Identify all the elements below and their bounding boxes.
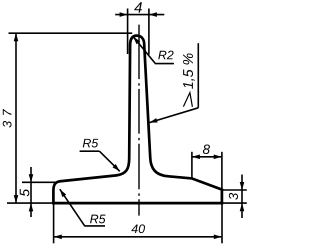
dim 4: extension line right	[148, 9, 150, 55]
radius label R2: text	[158, 51, 173, 60]
dim 5: top extension line	[22, 181, 58, 183]
dim 8: left arrow	[192, 155, 200, 160]
dim 3: bottom arrow	[240, 203, 245, 211]
dim 40: dimension line	[54, 236, 222, 238]
dim 5: dimension line	[30, 167, 32, 217]
radius label R5 (flange toe): arrowhead	[60, 189, 66, 197]
dim 37: dimension line	[15, 33, 17, 203]
radius label R5 (web fillet): leader line	[99, 151, 119, 171]
dim 4: dimension line	[115, 14, 164, 16]
dim 5: top arrow	[29, 174, 34, 182]
dim 37: bottom arrow	[14, 195, 19, 203]
dim 8: dimension line	[192, 156, 222, 158]
slope 1.5%: leader line	[149, 108, 198, 123]
dim 40: value label	[131, 224, 145, 233]
radius label R2: shelf	[155, 63, 174, 65]
radius label R5 (web fillet): text	[83, 139, 99, 148]
dim 8: right extension line (tip edge extended up)	[221, 152, 223, 190]
radius label R5 (flange toe): text	[90, 215, 106, 224]
radius label R5 (web fillet): arrowhead	[112, 164, 119, 171]
dim 4: left arrow	[120, 12, 128, 17]
dim 3: top arrow	[240, 182, 245, 190]
dim 3: top extension line	[222, 189, 247, 191]
dim 40: right arrow	[214, 235, 222, 240]
radius label R5 (flange toe): shelf	[84, 225, 105, 227]
radius label R2: arrowhead	[133, 37, 140, 45]
slope 1.5%: slope triangle symbol	[183, 93, 192, 107]
dim 40: left arrow	[54, 235, 62, 240]
radius label R5 (web fillet): shelf	[80, 150, 100, 152]
dim 8: left extension line	[191, 152, 193, 178]
slope 1.5%: arrowhead	[149, 118, 157, 123]
dim 40: left extension line	[53, 204, 55, 243]
dim 40: right extension line	[221, 204, 223, 243]
bottom extension line (left of profile)	[7, 202, 53, 204]
slope 1.5%: value label	[183, 53, 195, 88]
radius label R2: leader line	[133, 37, 155, 64]
profile outline of T-bar cross-section	[53, 36, 222, 204]
dim 37: value label	[3, 109, 12, 128]
dim 8: right arrow	[214, 155, 222, 160]
dim 4: extension line left	[127, 9, 129, 55]
radius label R5 (flange toe): leader line	[60, 189, 85, 226]
slope 1.5%: vertical shelf	[197, 43, 199, 108]
dim 5: value label	[20, 189, 30, 196]
dim 4: right arrow	[149, 12, 157, 17]
centerline (dash-dot axis of stem)	[138, 25, 140, 216]
dim 37: top arrow	[14, 33, 19, 41]
dim 8: value label	[203, 144, 210, 154]
dim 5: bottom arrow	[29, 203, 34, 211]
dim 37: top extension line	[9, 32, 133, 34]
dim 3: bottom extension line (profile bottom extended right)	[222, 202, 247, 204]
dim 4: value label	[134, 2, 142, 12]
dim 3: dimension line	[241, 175, 243, 219]
dim 3: value label	[229, 193, 238, 200]
